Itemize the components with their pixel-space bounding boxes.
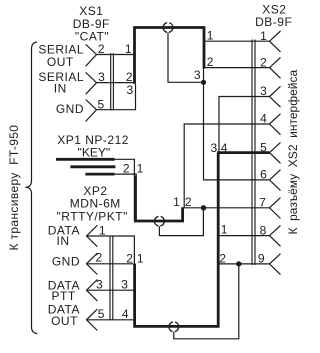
wire KEY sleeve: [115, 174, 137, 221]
pin XS2.1: [270, 31, 281, 52]
wire XP2 pin5: [87, 319, 134, 321]
shield symbol cable C: [155, 216, 165, 226]
svg-text:1: 1: [125, 42, 132, 56]
node junction A: [201, 80, 206, 85]
connector XP1 label: [57, 133, 129, 159]
connector XP2 label: [57, 184, 128, 224]
wire XS2 pin2: [203, 67, 270, 69]
svg-text:2: 2: [219, 251, 226, 265]
pin XP2.3: [87, 280, 98, 301]
svg-text:1: 1: [137, 252, 144, 266]
cable mark XS1: [111, 53, 114, 111]
svg-text:5: 5: [260, 140, 267, 154]
wire XP2 pin2: [87, 263, 134, 265]
svg-text:1: 1: [137, 161, 144, 175]
node junction C: [201, 205, 206, 210]
svg-text:1: 1: [207, 29, 214, 43]
svg-text:1: 1: [173, 195, 180, 209]
wire XS2 pin9: [217, 263, 270, 265]
svg-text:3: 3: [260, 84, 267, 98]
wire XS1 pin3: [97, 82, 135, 84]
pin XS1.2: [86, 44, 97, 66]
svg-text:"RTTY/PKT": "RTTY/PKT": [57, 209, 128, 223]
pin XP2.1: [87, 225, 98, 246]
svg-text:2: 2: [126, 252, 133, 266]
cable A thick bundle wire: [135, 28, 205, 84]
shield symbol cable B: [169, 322, 179, 332]
svg-text:9: 9: [258, 252, 265, 266]
wire XS2 pin4 from KEY wire 2: [184, 124, 269, 208]
wire XS2 pin8: [217, 235, 270, 237]
wire 3 to XS2 pin6: [204, 69, 270, 180]
pin XS2.7: [270, 198, 281, 219]
svg-text:2: 2: [98, 42, 105, 56]
pin XS2.2: [270, 57, 281, 78]
cable mark XP2: [110, 236, 113, 321]
label К трансиверу FT-950: [7, 125, 21, 251]
svg-text:8: 8: [260, 223, 267, 237]
brace К трансиверу FT-950: [25, 42, 37, 334]
svg-text:3: 3: [211, 141, 218, 155]
jack XP1 plug bars: [56, 159, 115, 174]
pin XS2.8: [270, 225, 281, 246]
pin XS1.5: [86, 100, 97, 122]
pin XS2.4: [270, 114, 281, 135]
svg-text:IN: IN: [54, 82, 67, 96]
pin XS2.6: [270, 170, 281, 191]
svg-text:OUT: OUT: [51, 314, 78, 328]
svg-text:2: 2: [185, 195, 192, 209]
wire XP2 pin3: [87, 289, 134, 291]
svg-text:GND: GND: [52, 255, 80, 269]
pin XS2.9: [270, 254, 281, 275]
svg-text:1: 1: [260, 29, 267, 43]
wire shield B tail: [174, 264, 239, 339]
svg-text:1: 1: [221, 223, 228, 237]
pin XS2.3: [270, 86, 281, 107]
cable C thick bundle wire: [135, 176, 182, 222]
svg-text:2: 2: [260, 55, 267, 69]
svg-text:К трансиверу FT-950: К трансиверу FT-950: [7, 125, 21, 251]
svg-text:3: 3: [121, 278, 128, 292]
connector XS2 pins 1-9: [270, 31, 281, 275]
cable mark XS2: [252, 40, 255, 266]
label К разъёму XS2 интерфейса: [286, 70, 300, 235]
pin XP2.2: [87, 253, 98, 274]
svg-text:3: 3: [96, 278, 103, 292]
pin XP2.5: [87, 309, 98, 330]
svg-text:6: 6: [260, 168, 267, 182]
wire XS2 pin1: [203, 40, 270, 42]
svg-text:GND: GND: [56, 102, 84, 116]
wire XS2 pin7: [181, 207, 269, 209]
svg-text:DB-9F: DB-9F: [255, 15, 292, 29]
wire XS1 pin2: [97, 54, 135, 56]
node junction B: [236, 261, 241, 266]
shield symbol cable A: [163, 23, 173, 33]
wire shield A tail: [168, 32, 204, 82]
svg-text:OUT: OUT: [47, 55, 74, 69]
svg-text:5: 5: [98, 307, 105, 321]
svg-text:3: 3: [98, 70, 105, 84]
svg-text:2: 2: [123, 161, 130, 175]
wire shield C tail: [159, 208, 203, 236]
connector XS1 label: [73, 4, 110, 43]
svg-text:"KEY": "KEY": [78, 145, 111, 159]
pin XS1.3: [86, 72, 97, 94]
connector XS2 label: [255, 3, 292, 30]
svg-text:2: 2: [96, 251, 103, 265]
svg-text:4: 4: [122, 307, 129, 321]
svg-text:PTT: PTT: [52, 289, 76, 303]
wire XS1 pin5: [97, 84, 136, 110]
svg-text:IN: IN: [57, 234, 70, 248]
wire XP2 pin1: [87, 236, 135, 264]
svg-text:3: 3: [194, 68, 201, 82]
svg-text:4: 4: [221, 141, 228, 155]
svg-text:3: 3: [127, 83, 134, 97]
svg-text:5: 5: [97, 97, 104, 111]
wire XS2 pin3 from wire 4: [219, 97, 270, 153]
svg-text:2: 2: [207, 55, 214, 69]
wire KEY tip: [115, 159, 135, 221]
wire XS2 pin5 thick: [217, 151, 270, 154]
svg-text:4: 4: [260, 112, 267, 126]
svg-text:К разъёму XS2 интерфейса: К разъёму XS2 интерфейса: [286, 70, 300, 235]
svg-text:7: 7: [259, 196, 266, 210]
svg-text:1: 1: [99, 223, 106, 237]
cable B thick bundle wire: [135, 153, 219, 327]
pin XS2.5: [270, 142, 281, 163]
